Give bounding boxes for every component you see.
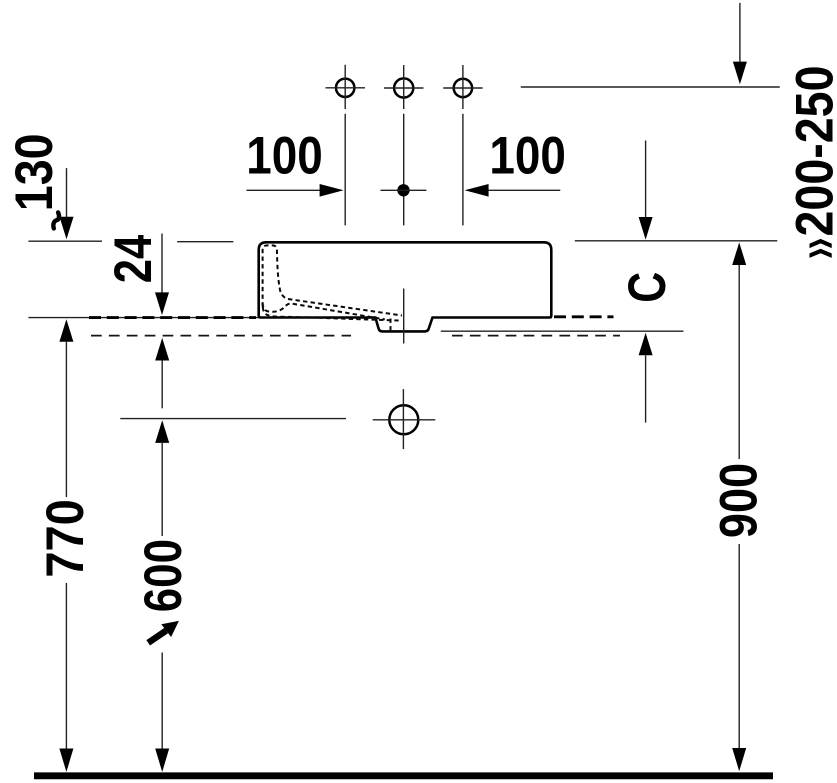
basin outer bottom dashed rail [263,307,401,321]
drain interior dashes [390,319,392,331]
crosshair horizontal circle 3 [443,87,482,89]
svg-text:600: 600 [134,539,193,612]
dimension 900 arrow up [732,242,746,265]
C top extension line [645,141,647,218]
basin centerline [403,289,405,344]
drain level line right [441,330,684,332]
centerline vertical 2 [403,65,405,225]
svg-text:24: 24 [104,234,163,283]
washbasin outline [259,242,552,331]
dimension line 100 right [488,189,561,191]
dimension line ~130 [66,168,68,217]
svg-text:100: 100 [489,126,566,185]
basin rim tick left [28,240,102,242]
svg-text:130: 130 [5,133,64,211]
arrowhead ~130 down [60,217,74,240]
counter dashed thick right [554,315,614,318]
faucet hole circle 2 [394,78,413,97]
crosshair horizontal circle 2 [384,87,423,89]
dimension 770 line lower [65,583,67,749]
centerline vertical 3 [462,65,464,225]
dimension 770 line upper [65,342,67,497]
arrowhead 24 lower up [155,338,169,361]
extension below 24 arrow [161,361,163,409]
lower dashed line right [452,335,620,337]
dimension 600 line lower [161,653,163,750]
basin rim extension line right [575,240,778,242]
drain crosshair vertical [402,389,404,449]
svg-text:900: 900 [709,463,768,538]
dimension 900 line lower [738,544,740,749]
C bottom extension line [645,355,647,422]
dimension 600 tick line [120,418,346,420]
faucet height line [521,86,780,88]
basin rim tick mid [177,241,233,243]
basin bowl floor dashed rail [263,303,385,319]
arrowhead 770 down [59,749,73,773]
basin inner wall dashed loop and top rail [263,245,402,315]
recommended arrow symbol [148,621,179,643]
label guillemet chevrons [810,239,832,248]
svg-text:770: 770 [36,499,95,577]
dimension line 100 left [247,189,322,191]
arrowhead 100 left [320,184,344,197]
dimension 770 arrow up [59,319,73,342]
tick through dot [381,189,427,191]
crosshair horizontal circle 1 [326,87,366,89]
arrowhead 900 down [732,748,746,771]
dimension 600 arrow up [155,420,169,443]
dimension 600 line upper [161,443,163,536]
drain circle [389,405,418,434]
arrowhead 24 down [155,292,169,315]
svg-text:100: 100 [246,126,323,185]
lower dashed line left [91,335,351,337]
dimension 900 line upper [738,265,740,459]
faucet hole circle 3 [454,79,472,97]
center reference dot [397,184,409,196]
extension line 200-250 top [739,3,741,63]
floor line [34,772,773,779]
svg-text:C: C [618,272,677,303]
svg-text:200-250: 200-250 [786,66,837,237]
arrowhead 100 right [465,184,489,197]
counter dashed thick left [89,316,256,319]
faucet hole circle 1 [336,79,354,97]
arrowhead C bottom up [639,333,653,356]
arrowhead 600 down [155,749,169,773]
drain crosshair horizontal [373,419,436,421]
dimension line 24 [161,234,163,294]
arrowhead 200-250 down [733,62,747,85]
counter top line [28,317,552,319]
centerline vertical 1 [344,65,346,226]
arrowhead C top down [639,217,653,240]
